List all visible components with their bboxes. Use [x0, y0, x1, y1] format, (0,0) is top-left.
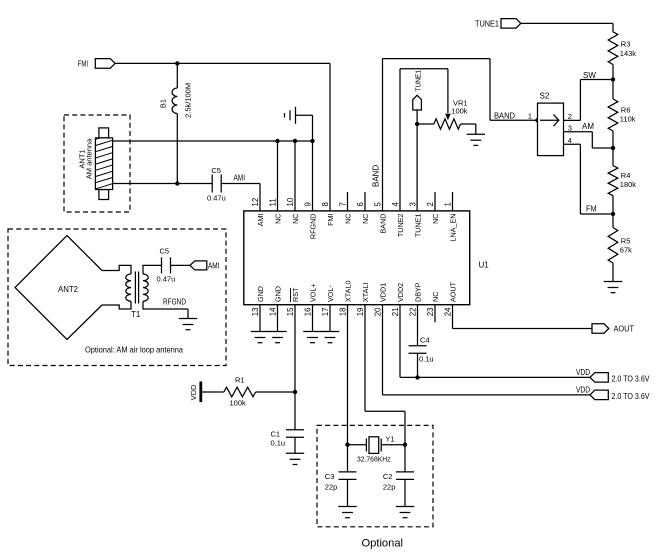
junction C4-VDD — [415, 375, 419, 379]
svg-text:67k: 67k — [620, 246, 632, 255]
svg-text:VOL+: VOL+ — [309, 283, 318, 302]
svg-text:NC: NC — [291, 214, 300, 224]
svg-text:VDD: VDD — [189, 384, 198, 400]
svg-text:17: 17 — [321, 308, 330, 317]
svg-text:180k: 180k — [620, 180, 637, 189]
svg-text:T1: T1 — [131, 310, 141, 319]
wire SW net — [580, 71, 613, 121]
capacitor C4 — [409, 305, 434, 378]
svg-text:2: 2 — [426, 202, 435, 206]
svg-text:NC: NC — [274, 214, 283, 224]
svg-text:2.0 TO 3.6V: 2.0 TO 3.6V — [612, 392, 651, 401]
wire R6-AM — [612, 131, 614, 148]
svg-text:21: 21 — [391, 308, 400, 317]
note loop antenna — [85, 345, 183, 355]
svg-text:AM: AM — [582, 122, 594, 131]
svg-text:15: 15 — [286, 307, 295, 316]
svg-text:RFGND: RFGND — [163, 298, 186, 307]
wire TUNE1 net — [416, 110, 418, 211]
junction R1-C1 — [293, 390, 297, 394]
junction B1 bottom — [175, 181, 179, 185]
svg-text:R3: R3 — [621, 40, 631, 49]
svg-text:0.47u: 0.47u — [157, 275, 176, 284]
ground C3 — [338, 479, 356, 517]
ground pin13 — [251, 305, 269, 343]
switch S2 — [538, 92, 564, 156]
svg-text:100k: 100k — [451, 106, 468, 115]
svg-text:1: 1 — [444, 202, 453, 206]
svg-text:0.47u: 0.47u — [207, 194, 226, 203]
resistor R3 — [608, 32, 636, 65]
svg-text:BAND: BAND — [494, 112, 515, 121]
capacitor C5 loop — [157, 247, 176, 284]
capacitor C5 — [207, 166, 226, 203]
wire AOUT net — [453, 305, 593, 329]
svg-text:XTALI: XTALI — [361, 283, 370, 302]
svg-text:Y1: Y1 — [385, 434, 394, 443]
wire AMI loop — [171, 264, 191, 266]
power VDD rail — [189, 382, 201, 403]
dashed box ANT2 — [8, 229, 226, 366]
wire VDD2 net — [400, 305, 590, 378]
svg-text:TUNE1: TUNE1 — [414, 214, 423, 238]
svg-text:5: 5 — [374, 202, 383, 207]
svg-text:BAND: BAND — [379, 214, 388, 234]
wire pin11 — [277, 141, 279, 211]
junction pin11 — [275, 139, 279, 143]
svg-text:1: 1 — [528, 111, 532, 120]
junction FM — [611, 212, 615, 216]
svg-text:VDD2: VDD2 — [396, 283, 405, 302]
svg-text:AMI: AMI — [208, 261, 220, 270]
transformer T1 — [102, 265, 188, 319]
resistor R6 — [608, 80, 636, 132]
svg-text:C2: C2 — [383, 472, 393, 481]
port TUNE1 top — [475, 19, 521, 29]
svg-text:AOUT: AOUT — [614, 324, 635, 333]
port VDD lower — [576, 385, 650, 401]
svg-text:Optional: Optional — [362, 538, 404, 550]
ground R5 — [604, 263, 622, 293]
svg-text:AMI: AMI — [234, 174, 246, 183]
wire AM net — [582, 122, 613, 148]
potentiometer VR1 — [417, 99, 468, 130]
svg-text:2.5k/100M: 2.5k/100M — [184, 83, 193, 118]
inductor B1 — [159, 63, 193, 183]
svg-text:NC: NC — [361, 214, 370, 224]
svg-text:BAND: BAND — [372, 165, 381, 187]
svg-text:110k: 110k — [620, 115, 636, 124]
svg-text:GND: GND — [256, 286, 265, 302]
junction pin10 — [293, 139, 297, 143]
junction XTAL0 — [345, 443, 349, 447]
wire XTALI net — [365, 305, 405, 445]
svg-text:NC: NC — [431, 292, 440, 302]
ground C1 — [286, 437, 304, 464]
ground RFGND loop — [163, 298, 197, 330]
svg-text:AMI: AMI — [256, 214, 265, 227]
svg-text:100k: 100k — [230, 399, 247, 408]
antenna ANT2 loop — [15, 236, 102, 340]
ground RFGND — [285, 107, 313, 141]
svg-text:GND: GND — [274, 286, 283, 302]
svg-text:3: 3 — [409, 202, 418, 206]
svg-text:23: 23 — [426, 308, 435, 317]
svg-text:22p: 22p — [383, 483, 396, 492]
svg-text:3: 3 — [568, 123, 572, 132]
svg-text:TUNE1: TUNE1 — [475, 20, 499, 29]
svg-text:LNA_EN: LNA_EN — [449, 214, 458, 242]
svg-text:14: 14 — [269, 307, 278, 316]
svg-text:R1: R1 — [235, 375, 245, 384]
antenna ANT1 ferrite rod — [78, 128, 115, 200]
svg-text:C3: C3 — [325, 472, 335, 481]
ground pin14 — [268, 305, 286, 343]
svg-text:RST: RST — [291, 287, 300, 302]
ground pin17 — [321, 305, 339, 343]
svg-text:9: 9 — [304, 202, 313, 206]
svg-text:10: 10 — [286, 197, 295, 206]
svg-text:FMI: FMI — [326, 213, 335, 225]
svg-text:32.768KHz: 32.768KHz — [357, 454, 391, 463]
svg-text:FMI: FMI — [78, 60, 88, 69]
svg-text:C4: C4 — [420, 336, 430, 345]
junction AM — [611, 146, 615, 150]
svg-text:U1: U1 — [479, 260, 490, 269]
svg-text:XTAL0: XTAL0 — [344, 281, 353, 302]
junction TUNE1-VR1 — [415, 122, 419, 126]
IC U1 top pins — [251, 192, 458, 241]
port AMI loop — [190, 261, 220, 270]
svg-text:VDD: VDD — [576, 385, 590, 394]
svg-text:R5: R5 — [621, 237, 631, 246]
wire RST net — [294, 305, 296, 430]
svg-text:20: 20 — [374, 307, 383, 316]
svg-text:NC: NC — [344, 214, 353, 224]
wire S2 pin2 stub — [564, 112, 581, 121]
wire S2 pin3 stub — [564, 123, 593, 132]
svg-text:22p: 22p — [325, 483, 338, 492]
dashed box Optional — [317, 425, 433, 549]
svg-text:NC: NC — [431, 214, 440, 224]
svg-text:24: 24 — [444, 307, 453, 316]
wire TUNE2 net — [400, 69, 451, 211]
svg-text:R4: R4 — [621, 171, 631, 180]
crystal Y1 — [348, 434, 406, 463]
wire FMI net — [115, 63, 330, 211]
port AOUT — [592, 324, 634, 334]
svg-text:2.0 TO 3.6V: 2.0 TO 3.6V — [612, 374, 651, 383]
capacitor C1 — [271, 430, 305, 448]
svg-text:19: 19 — [356, 308, 365, 317]
wire pin9 — [312, 141, 314, 211]
wire AMI net — [221, 174, 260, 211]
wire ANT1 bottom net — [113, 183, 213, 185]
svg-text:C5: C5 — [160, 247, 170, 256]
port FMI — [78, 59, 115, 69]
wire VDD1 net — [383, 305, 591, 395]
wire pin10 — [294, 141, 296, 211]
op-amp U1 (IC body) — [244, 211, 489, 305]
svg-text:4: 4 — [568, 136, 572, 145]
svg-text:Optional: AM air loop antenna: Optional: AM air loop antenna — [85, 345, 183, 355]
svg-text:R6: R6 — [621, 106, 631, 115]
svg-text:SW: SW — [583, 71, 596, 80]
junction S2 pin1 — [535, 118, 539, 122]
svg-text:S2: S2 — [540, 92, 550, 101]
port VDD upper — [576, 368, 650, 384]
svg-text:FM: FM — [586, 204, 597, 213]
port TUNE1 vertical — [413, 70, 423, 110]
svg-text:18: 18 — [339, 308, 348, 317]
svg-text:0.1u: 0.1u — [271, 439, 286, 448]
svg-text:6: 6 — [356, 202, 365, 206]
svg-text:TUNE2: TUNE2 — [396, 214, 405, 238]
svg-text:8: 8 — [321, 202, 330, 206]
junction SW — [611, 77, 615, 81]
wire R3-SW — [612, 65, 614, 80]
junction XTALI — [403, 443, 407, 447]
svg-text:143k: 143k — [620, 49, 637, 58]
svg-text:AOUT: AOUT — [449, 281, 458, 302]
wire FM net — [580, 144, 613, 214]
dashed box ANT1 — [64, 115, 130, 212]
svg-text:ANT2: ANT2 — [58, 284, 78, 294]
svg-text:DBYP: DBYP — [414, 282, 423, 302]
capacitor C3 — [325, 445, 357, 492]
svg-text:B1: B1 — [159, 99, 168, 108]
svg-text:VOL-: VOL- — [326, 285, 335, 302]
svg-text:11: 11 — [269, 198, 278, 206]
wire R1-RST — [256, 391, 295, 393]
svg-text:22: 22 — [409, 308, 418, 317]
junction FMI-B1 — [175, 61, 179, 65]
wire R4-FM — [612, 196, 614, 214]
junction pin9 — [310, 139, 314, 143]
ground pin16 — [303, 305, 321, 343]
wire S2 pin4 stub — [564, 136, 581, 145]
svg-text:4: 4 — [391, 202, 400, 207]
svg-text:VDD1: VDD1 — [379, 283, 388, 302]
svg-text:TUNE1: TUNE1 — [413, 70, 422, 92]
svg-text:C1: C1 — [271, 430, 281, 439]
svg-text:RFGND: RFGND — [309, 214, 318, 240]
wire BAND net — [372, 59, 538, 211]
resistor R5 — [608, 214, 632, 263]
resistor R1 — [202, 375, 256, 407]
IC U1 bottom pins — [251, 281, 458, 323]
svg-text:12: 12 — [251, 198, 260, 207]
wire XTAL0 net — [347, 305, 349, 445]
ground VR1 — [461, 124, 486, 145]
resistor R4 — [608, 148, 636, 196]
svg-text:13: 13 — [251, 308, 260, 317]
svg-text:AM antenna: AM antenna — [85, 138, 94, 179]
capacitor C2 — [383, 445, 414, 492]
svg-text:0.1u: 0.1u — [419, 355, 434, 364]
svg-text:VDD: VDD — [576, 368, 590, 377]
ground C2 — [396, 479, 414, 517]
svg-text:C5: C5 — [211, 166, 221, 175]
svg-text:2: 2 — [568, 112, 572, 121]
svg-text:7: 7 — [339, 202, 348, 206]
wire ANT1 top net — [113, 140, 313, 142]
wire TUNE1 top net — [521, 23, 613, 31]
svg-text:16: 16 — [304, 308, 313, 317]
